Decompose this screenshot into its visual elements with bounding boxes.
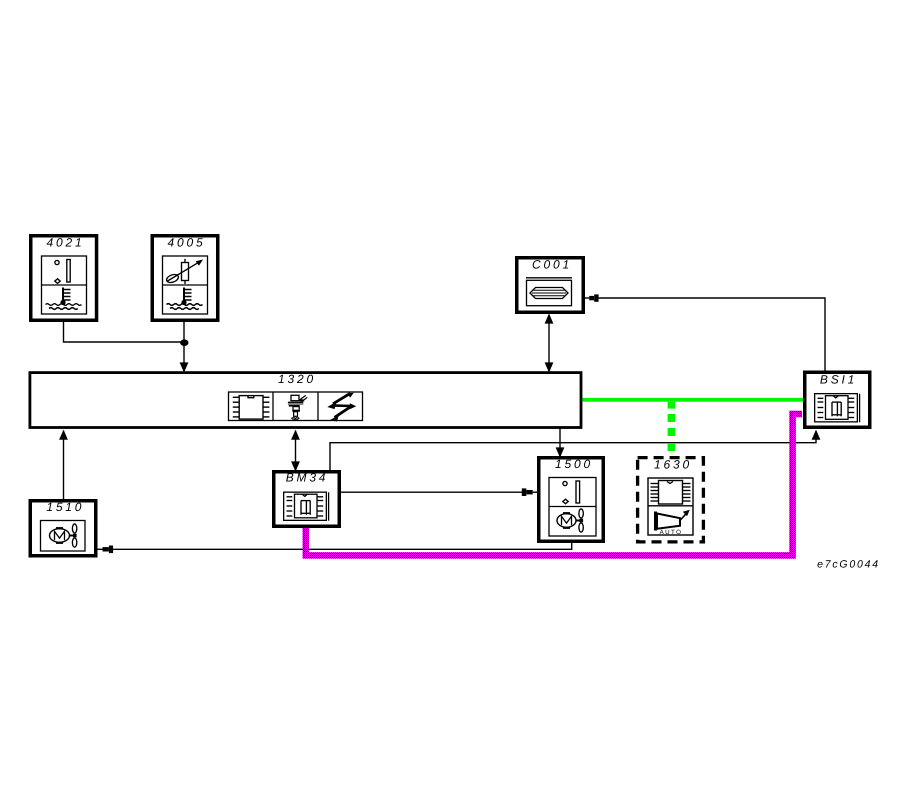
arrow into BSI1 bottom (812, 430, 821, 440)
1500 icon frame (549, 478, 596, 537)
arrow into 1320 bottom from BM34 (291, 430, 300, 440)
connector plug at C001 right (585, 297, 589, 299)
connector plug at 1500 left (522, 488, 527, 496)
wire from 4005 down to 1320 (183, 320, 185, 371)
box 1500 (539, 458, 604, 542)
wire C001 to 1320 (double arrow) (548, 315, 550, 371)
wire 1320 to BM34 (double arrow) (295, 431, 297, 471)
svg-text:1500: 1500 (555, 457, 593, 471)
1630 icon frame (648, 478, 693, 535)
purple wire BSI1 to BM34 (306, 414, 802, 555)
box 1630 dashed (638, 458, 704, 542)
BSI1 chip-in-box icon (815, 394, 860, 423)
box C001 (517, 258, 584, 313)
4005 pedal potentiometer (182, 263, 189, 281)
svg-text:1320: 1320 (278, 372, 316, 386)
BM34 chip-in-box icon (284, 492, 329, 521)
svg-text:e7cG0044: e7cG0044 (817, 559, 880, 571)
arrow into 1500 top (556, 447, 565, 457)
wire 1500 bottom to 1510 right (113, 542, 572, 549)
svg-text:1510: 1510 (46, 500, 84, 514)
box 1320 (30, 373, 581, 428)
1320 injector icon (288, 395, 307, 420)
svg-text:1630: 1630 (654, 458, 692, 472)
box BSI1 (805, 372, 870, 427)
1630 horn AUTO icon (656, 510, 690, 531)
C001 diagnostic connector icon (526, 278, 572, 306)
green wire 1320 to BSI1 (582, 398, 803, 402)
svg-text:BM34: BM34 (286, 471, 329, 485)
1630 chip icon (651, 481, 691, 505)
1320 ECU chip icon (233, 396, 270, 420)
1320 icon strip (229, 392, 363, 421)
svg-text:BSI1: BSI1 (820, 373, 857, 387)
box 4021 (31, 236, 97, 321)
svg-text:4021: 4021 (47, 236, 85, 250)
1510 motor fan icon (50, 524, 77, 547)
1320 lightning icon (327, 393, 356, 422)
1510 icon frame (41, 521, 86, 552)
svg-text:4005: 4005 (168, 236, 206, 250)
svg-text:C001: C001 (532, 258, 572, 272)
arrow into 1320 top from 4021/4005 (180, 362, 189, 372)
4005 icon frame (163, 256, 208, 314)
box 4005 (152, 236, 218, 321)
wire 1510 up to 1320 (63, 431, 65, 501)
1500 level sensor: circle, diamond, bar (563, 481, 567, 485)
box 1510 (30, 501, 96, 556)
arrow into BM34 top (291, 461, 300, 471)
arrow into 1320 bottom from 1510 (59, 430, 68, 440)
arrow into 1320 top from C001 (545, 362, 554, 372)
wire from 4021 down to junction (64, 320, 185, 342)
1500 motor fan icon (557, 509, 583, 532)
svg-text:AUTO: AUTO (660, 529, 683, 536)
4005 thermometer (183, 288, 185, 303)
green dashed wire down to 1630 (668, 402, 675, 409)
4021 thermometer (62, 288, 64, 303)
wire C001 right to BSI1 top (599, 298, 825, 372)
4021 icon frame (42, 256, 87, 314)
wire BM34 right to 1500 left (341, 491, 522, 493)
box BM34 (274, 472, 340, 527)
wire BM34 top to BSI1 bottom (330, 431, 816, 471)
4021 level sensor: circle, diamond, bar (55, 260, 59, 264)
connector plug at 1510 right (109, 546, 113, 554)
junction dot (180, 339, 188, 346)
arrow into C001 bottom (545, 313, 554, 323)
wire 1320 down to 1500 (559, 429, 561, 457)
